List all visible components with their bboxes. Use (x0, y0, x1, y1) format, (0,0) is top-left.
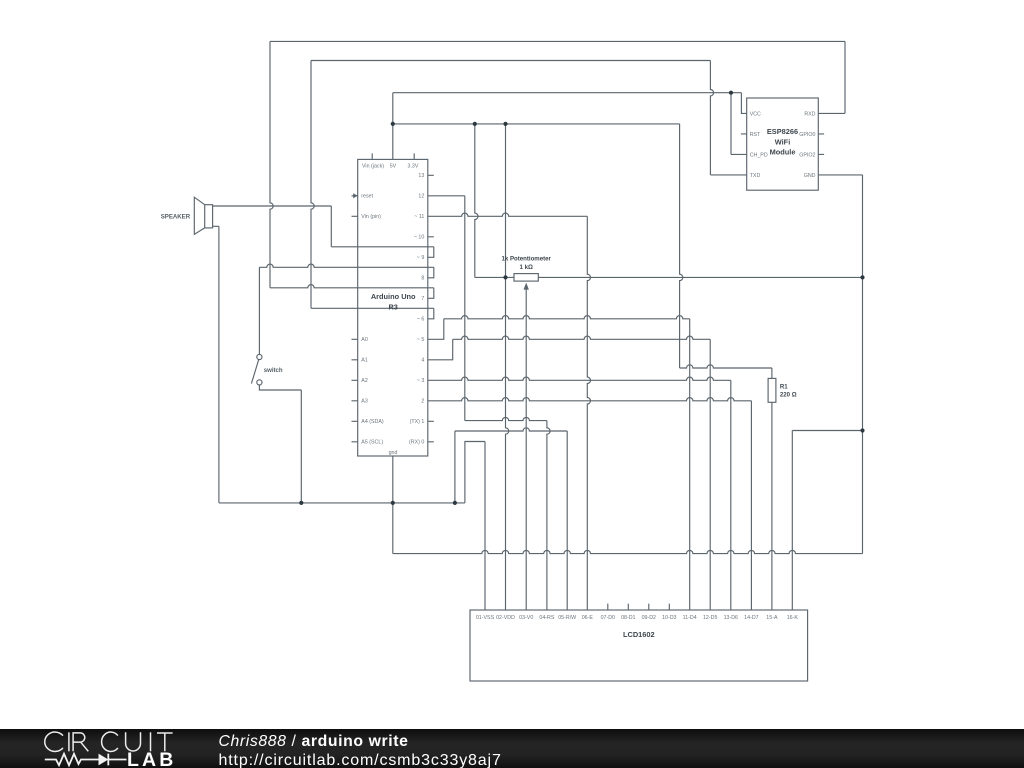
svg-text:1k Potentiometer: 1k Potentiometer (501, 256, 551, 263)
svg-text:ESP8266: ESP8266 (767, 127, 798, 136)
node CH_PD tap (729, 91, 733, 95)
node arduino gnd junction (391, 501, 395, 505)
svg-text:RST: RST (750, 132, 761, 138)
wire net 5V to ESP VCC (393, 93, 747, 160)
wire ground spur to LCD 05-R/W (455, 428, 567, 610)
svg-text:reset: reset (361, 194, 373, 200)
potentiometer 1k body (514, 274, 538, 282)
svg-text:~ 3: ~ 3 (417, 378, 425, 384)
reset pin input arrow (353, 193, 358, 198)
svg-text:R3: R3 (388, 302, 397, 311)
svg-text:02-VDD: 02-VDD (496, 615, 515, 621)
svg-text:(TX) 1: (TX) 1 (410, 419, 425, 425)
svg-text:14-D7: 14-D7 (744, 615, 758, 621)
svg-text:2: 2 (421, 399, 424, 405)
svg-text:LCD1602: LCD1602 (623, 630, 655, 639)
svg-text:A3: A3 (361, 399, 368, 405)
svg-text:05-R/W: 05-R/W (558, 615, 576, 621)
svg-text:07-D0: 07-D0 (601, 615, 615, 621)
wire GND branch to LCD 16-K (792, 431, 862, 611)
svg-text:http://circuitlab.com/csmb3c33: http://circuitlab.com/csmb3c33y8aj7 (219, 752, 502, 768)
svg-text:12: 12 (418, 194, 424, 200)
svg-text:10-D3: 10-D3 (662, 615, 676, 621)
svg-text:A1: A1 (361, 358, 368, 364)
wire speaker plus to D9 (213, 206, 434, 257)
svg-text:Vin (jack): Vin (jack) (362, 163, 384, 169)
svg-text:LAB: LAB (127, 749, 176, 768)
svg-text:WiFi: WiFi (775, 137, 791, 146)
svg-text:GPIO0: GPIO0 (799, 132, 815, 138)
svg-text:~ 11: ~ 11 (414, 214, 424, 220)
node line4 pot-left tap (473, 122, 477, 126)
svg-text:A4 (SDA): A4 (SDA) (361, 419, 384, 425)
svg-text:GPIO2: GPIO2 (799, 152, 815, 158)
wire net 5V line4 to R1 top (393, 124, 772, 379)
svg-text:08-D1: 08-D1 (621, 615, 635, 621)
svg-text:~ 9: ~ 9 (417, 255, 425, 261)
svg-text:Chris888 / arduino write: Chris888 / arduino write (219, 733, 409, 750)
wire net 5V drop to LCD 02-VDD (506, 124, 509, 610)
wire pot right to GND rail (538, 276, 862, 278)
footer bar (0, 729, 1024, 768)
svg-text:RXD: RXD (804, 111, 815, 117)
svg-text:TXD: TXD (750, 173, 761, 179)
svg-text:GND: GND (804, 173, 816, 179)
svg-text:01-VSS: 01-VSS (476, 615, 495, 621)
svg-text:CH_PD: CH_PD (750, 152, 768, 158)
wire pot wiper to LCD V0 (525, 289, 527, 610)
wire D5 to LCD D4 (428, 316, 690, 610)
potentiometer wiper arrow (524, 283, 529, 290)
svg-text:Vin (pin): Vin (pin) (361, 214, 381, 220)
CircuitLab logo CIRCUIT (thin custom glyphs) (45, 732, 173, 751)
ESP8266 WiFi Module body (747, 98, 819, 190)
svg-text:(RX) 0: (RX) 0 (409, 440, 424, 446)
wire speaker minus down (213, 226, 219, 503)
svg-text:A5 (SCL): A5 (SCL) (361, 440, 383, 446)
svg-text:03-V0: 03-V0 (519, 615, 533, 621)
svg-text:A0: A0 (361, 337, 368, 343)
resistor R1 body (768, 378, 776, 402)
wire D2 to LCD D7 (428, 398, 752, 610)
node pot right GND junction (860, 275, 864, 279)
svg-text:Arduino Uno: Arduino Uno (371, 292, 416, 301)
svg-text:gnd: gnd (389, 450, 398, 456)
wire D4 to LCD D5 (428, 336, 710, 610)
wire switch bottom to ground (259, 385, 301, 503)
svg-text:SPEAKER: SPEAKER (161, 214, 191, 221)
wire Arduino gnd pin down (392, 456, 394, 554)
wire ground run speaker/switch (219, 502, 465, 504)
wire D11 to LCD E (428, 213, 591, 610)
wire D12 to LCD RS (428, 196, 550, 610)
svg-text:15-A: 15-A (766, 615, 778, 621)
svg-text:8: 8 (421, 276, 424, 282)
svg-text:R1: R1 (780, 383, 788, 390)
svg-text:16-K: 16-K (787, 615, 799, 621)
ESP8266 stubs RST GPIO0 GPIO2 (741, 134, 824, 155)
svg-text:4: 4 (421, 358, 424, 364)
svg-text:~ 5: ~ 5 (417, 337, 425, 343)
wire net GND bottom bus (393, 550, 863, 553)
svg-text:11-D4: 11-D4 (683, 615, 697, 621)
Arduino unconnected stubs (13, ~10, TX1, RX0, left pins, top pins) (352, 153, 434, 441)
svg-text:09-D2: 09-D2 (642, 615, 656, 621)
node pot left junction (503, 275, 507, 279)
svg-text:switch: switch (264, 367, 283, 374)
speaker SPK1 (194, 197, 212, 234)
node switch-bottom ground (299, 501, 303, 505)
node ground spur junction (453, 501, 457, 505)
svg-text:VCC: VCC (750, 111, 761, 117)
svg-text:Module: Module (770, 148, 796, 157)
wire net GND right vertical (818, 175, 862, 554)
svg-text:1 kΩ: 1 kΩ (520, 264, 533, 271)
svg-text:7: 7 (421, 296, 424, 302)
wire net 5V to ESP CH_PD (731, 93, 747, 155)
svg-text:A2: A2 (361, 378, 368, 384)
wire net D7-RXD top rail (270, 41, 845, 298)
svg-text:~ 10: ~ 10 (414, 235, 425, 241)
svg-text:06-E: 06-E (582, 615, 594, 621)
CircuitLab logo resistor+diode glyph (45, 754, 99, 765)
svg-text:13-D6: 13-D6 (724, 615, 738, 621)
wire net 5V drop to potentiometer left (475, 124, 514, 278)
wire ground bridge to LCD 01-VSS (465, 442, 485, 611)
node 5V-line4 tap (391, 122, 395, 126)
svg-text:12-D5: 12-D5 (703, 615, 717, 621)
wire D3 to LCD D6 (428, 377, 731, 610)
LCD1602 body (470, 610, 808, 681)
svg-text:04-RS: 04-RS (539, 615, 554, 621)
node line4 VDD tap (503, 122, 507, 126)
svg-text:3.3V: 3.3V (408, 163, 419, 169)
svg-text:220 Ω: 220 Ω (780, 392, 797, 399)
LCD1602 unconnected stubs 07-D0..10-D3 (608, 604, 670, 610)
svg-text:5V: 5V (390, 163, 397, 169)
wire switch top to D8 (259, 264, 433, 354)
svg-text:~ 6: ~ 6 (417, 317, 425, 323)
switch SW1 (251, 354, 262, 385)
node GND 16-K branch (860, 428, 864, 432)
Arduino Uno R3 U1 body (358, 159, 428, 456)
wire net D6-TXD rail (311, 61, 747, 319)
svg-text:13: 13 (418, 173, 424, 179)
wire R1 to LCD A (771, 402, 773, 610)
